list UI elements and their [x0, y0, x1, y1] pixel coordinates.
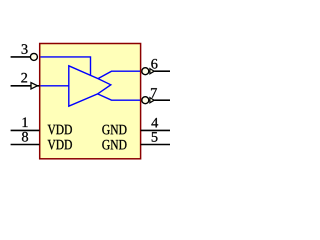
pin number 8 — [22, 132, 28, 142]
pin 4 line — [141, 129, 170, 131]
pin number 7 — [151, 88, 157, 97]
IC body U1 — [40, 44, 141, 159]
wire to pin 6 — [98, 71, 140, 78]
pin name VDD (pin 8) — [48, 140, 72, 150]
pin 2 input triangle symbol — [31, 83, 37, 89]
pin 2 line — [11, 85, 40, 87]
wire pin2 to triangle input — [41, 85, 69, 87]
pin name GND (pin 5) — [102, 140, 126, 150]
buffer triangle — [69, 66, 111, 106]
pin number 2 — [21, 73, 27, 83]
pin number 4 — [151, 118, 158, 127]
pin 7 line — [154, 99, 170, 101]
pin 7 clock-out triangle — [150, 98, 154, 103]
pin 3 dot symbol — [30, 53, 37, 60]
pin 5 line — [141, 144, 170, 146]
pin 8 line — [11, 144, 40, 146]
pin 6 dot symbol — [142, 68, 149, 75]
wire pin3 to triangle top edge — [41, 57, 91, 76]
pin 7 dot symbol — [142, 97, 149, 104]
pin 6 line — [154, 70, 170, 72]
pin 6 clock-out triangle — [150, 69, 154, 74]
pin name VDD (pin 1) — [48, 125, 72, 135]
pin name GND (pin 4) — [102, 125, 126, 135]
pin number 3 — [22, 44, 28, 54]
pin number 6 — [151, 59, 157, 69]
wire to pin 7 — [98, 94, 140, 100]
pin number 5 — [152, 132, 158, 142]
pin 3 line — [11, 56, 31, 58]
pin 1 line — [11, 129, 40, 131]
pin number 1 — [23, 118, 28, 127]
